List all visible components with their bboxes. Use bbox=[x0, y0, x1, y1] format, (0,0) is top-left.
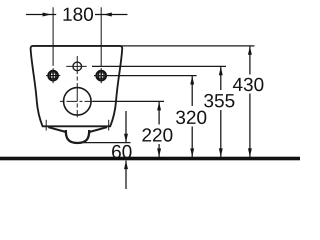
leader from top edge to 430 bbox=[121, 45, 255, 47]
leader from outlet circle to 220 bbox=[93, 100, 164, 102]
label 355 bbox=[204, 94, 234, 108]
water inlet small circle bbox=[73, 62, 82, 71]
dim 220 line bbox=[157, 102, 161, 157]
label 180 bbox=[64, 8, 94, 22]
right fixing hole bbox=[96, 68, 107, 83]
toilet body outline bbox=[31, 46, 123, 126]
label 430 bbox=[233, 78, 264, 92]
left seat-buffer tick bbox=[45, 120, 47, 131]
bowl underside right slope bbox=[89, 127, 107, 132]
outlet big circle bbox=[64, 88, 92, 116]
leader from inlet circle to 355 bbox=[92, 65, 226, 67]
dim 180 line and arrows bbox=[26, 13, 128, 17]
label 320 bbox=[176, 111, 206, 125]
right seat-buffer tick bbox=[108, 120, 110, 131]
left fixing hole bbox=[46, 68, 60, 83]
dim 320 line bbox=[190, 76, 194, 157]
label 220 bbox=[142, 128, 172, 142]
left hole centerline (180 extension) bbox=[52, 7, 54, 66]
floor line bbox=[0, 157, 300, 161]
label 60 bbox=[112, 145, 131, 159]
dim 430 line bbox=[248, 46, 252, 157]
leader from fixing hole to 320 bbox=[94, 75, 197, 77]
bowl underside left slope bbox=[48, 127, 66, 132]
right hole centerline (180 extension) bbox=[100, 7, 102, 66]
extension line for 60 bbox=[82, 142, 131, 144]
dim 355 line bbox=[219, 67, 223, 157]
small circle horizontal crosshair bbox=[66, 65, 87, 67]
big circle horizontal crosshair bbox=[60, 100, 95, 102]
trap U shape bbox=[66, 130, 89, 143]
dim 60 arrows bbox=[124, 111, 128, 189]
main vertical centerline bbox=[76, 56, 78, 117]
